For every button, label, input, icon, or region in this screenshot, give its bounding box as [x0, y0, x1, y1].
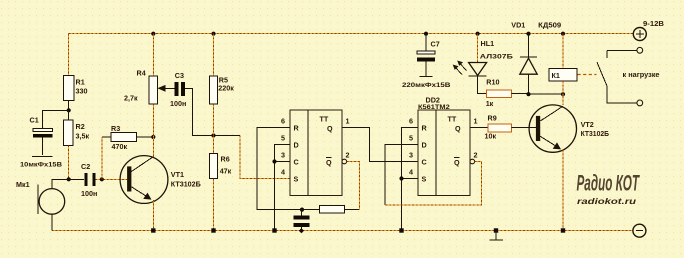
wire pin5 D down — [275, 145, 291, 231]
wire LED cathode to R10 — [478, 76, 487, 94]
svg-text:C2: C2 — [81, 162, 90, 171]
node VT1 emitter / 0V rail — [151, 228, 155, 232]
node top rail / C7 — [424, 32, 428, 36]
node C3/R5 — [211, 133, 215, 137]
resistor R7 (timing) — [302, 209, 320, 211]
svg-text:R: R — [422, 124, 428, 133]
svg-text:10к: 10к — [485, 131, 497, 140]
inversion bubble Q2bar — [470, 159, 475, 164]
svg-text:9-12В: 9-12В — [643, 19, 664, 28]
svg-text:HL1: HL1 — [481, 39, 495, 48]
svg-text:VT1: VT1 — [171, 170, 184, 179]
wire pin6 R to RC node — [257, 128, 302, 210]
wire pin3 C — [275, 161, 291, 163]
transistor VT1 — [120, 156, 168, 204]
node R1/R2/C1 — [67, 108, 71, 112]
capacitor C2 — [84, 173, 87, 186]
svg-text:220мкФх15В: 220мкФх15В — [402, 82, 451, 89]
svg-text:radiokot.ru: radiokot.ru — [577, 196, 637, 206]
svg-text:4: 4 — [409, 168, 413, 177]
svg-text:100н: 100н — [170, 99, 186, 108]
svg-text:S: S — [294, 175, 299, 184]
svg-text:КТ3102Б: КТ3102Б — [581, 129, 609, 138]
svg-text:R1: R1 — [76, 78, 85, 87]
resistor R6 — [213, 136, 215, 154]
node top rail / VD1 — [526, 32, 530, 36]
svg-text:Q: Q — [454, 158, 460, 167]
node D/C tie — [272, 159, 276, 163]
wire mic bottom to 0V rail — [51, 214, 53, 230]
wire top-rail drop to R1 — [68, 34, 70, 76]
LED emission arrows — [460, 63, 467, 71]
node top rail / K1 — [561, 32, 565, 36]
node top rail / HL1 — [476, 32, 480, 36]
svg-text:100н: 100н — [81, 189, 97, 198]
wire VT2 emitter down — [562, 150, 564, 231]
svg-text:1: 1 — [474, 117, 478, 126]
svg-text:C: C — [294, 158, 299, 167]
relay contact K1.1 — [607, 49, 637, 51]
node R6 / 0V rail — [211, 228, 215, 232]
resistor R9 — [488, 124, 512, 132]
capacitor C7 (electrolytic) — [425, 34, 427, 51]
resistor R2 — [64, 120, 74, 145]
svg-text:S: S — [422, 175, 427, 184]
wire VT1 emitter down — [152, 200, 154, 231]
svg-text:КД509: КД509 — [538, 21, 561, 30]
node top rail / R4 — [151, 32, 155, 36]
svg-text:К1: К1 — [552, 71, 560, 80]
node D/C to 0V rail — [272, 228, 276, 232]
svg-text:R2: R2 — [76, 122, 85, 131]
svg-text:АЛ307Б: АЛ307Б — [480, 54, 513, 61]
wire C3 right to trigger node — [185, 88, 240, 135]
svg-text:C: C — [422, 158, 427, 167]
wire Q2 to R9 — [470, 127, 488, 129]
svg-text:1к: 1к — [486, 99, 494, 108]
resistor R3 — [102, 136, 111, 138]
capacitor C3 — [175, 82, 179, 96]
node R3/R4/VT1 collector — [151, 135, 155, 139]
svg-text:Q: Q — [326, 158, 332, 167]
wire Q2bar loop to D — [385, 162, 482, 205]
svg-text:3: 3 — [409, 151, 413, 160]
node C4 / 0V rail — [299, 228, 304, 233]
svg-text:220к: 220к — [218, 84, 234, 93]
wire node to C1 — [42, 110, 68, 128]
relay coil K1 — [562, 34, 564, 69]
node R/S tie — [399, 176, 403, 180]
svg-text:ТТ: ТТ — [320, 114, 329, 123]
svg-text:1: 1 — [346, 117, 350, 126]
resistor R1 — [64, 75, 75, 100]
wire pin6 R down to S — [402, 128, 419, 179]
transistor VT2 — [529, 105, 576, 152]
svg-text:4: 4 — [281, 168, 285, 177]
wire trigger to S input of DD2.1 — [240, 136, 290, 179]
svg-text:Мк1: Мк1 — [16, 180, 30, 189]
wire R10/VD1 to collector node — [512, 93, 529, 95]
flip-flop DD2.1 (left K561TM2 half) — [290, 110, 342, 196]
svg-text:R9: R9 — [488, 114, 497, 123]
svg-text:5: 5 — [281, 134, 285, 143]
svg-text:2,7к: 2,7к — [124, 94, 138, 103]
svg-text:VD1: VD1 — [511, 21, 525, 30]
svg-text:Q: Q — [455, 124, 461, 133]
svg-text:6: 6 — [281, 117, 285, 126]
svg-text:D: D — [422, 141, 427, 150]
wire VT1 collector up — [152, 137, 154, 156]
wire pin4 S — [402, 178, 419, 180]
svg-text:2: 2 — [474, 151, 478, 160]
ground — [494, 228, 498, 232]
wire R1 bottom to node — [68, 101, 70, 111]
node VD1 anode — [526, 92, 530, 96]
wire pin5 D from Qbar loop — [385, 145, 418, 205]
svg-text:D: D — [294, 141, 299, 150]
svg-text:2: 2 — [346, 151, 350, 160]
node relay / VT2 collector — [561, 92, 565, 96]
node RC junction — [300, 208, 304, 212]
resistor R4 (trimmer) — [152, 34, 154, 76]
svg-text:C3: C3 — [175, 71, 184, 80]
terminal minus — [633, 224, 646, 237]
inversion bubble Q1bar — [342, 159, 347, 164]
svg-text:C7: C7 — [431, 40, 440, 49]
wire +V top rail — [69, 33, 634, 35]
LED HL1 — [477, 34, 479, 63]
svg-text:330: 330 — [76, 87, 88, 96]
svg-text:6: 6 — [409, 117, 413, 126]
svg-text:470к: 470к — [112, 142, 128, 151]
node base / R3 — [100, 177, 104, 181]
svg-text:R10: R10 — [486, 78, 499, 87]
capacitor C4 (timing) — [293, 216, 309, 220]
svg-text:3: 3 — [281, 151, 285, 160]
wire C2 to VT1 base — [96, 178, 128, 180]
node R2 / mic / C2 — [67, 177, 71, 181]
svg-text:3,5к: 3,5к — [76, 132, 90, 141]
svg-text:C1: C1 — [30, 116, 39, 125]
wire 0V bottom rail — [52, 230, 633, 232]
svg-text:к нагрузке: к нагрузке — [623, 72, 660, 79]
wiper arrow into R4 — [160, 87, 175, 89]
svg-text:ТТ: ТТ — [448, 114, 457, 123]
node VT2 emitter / 0V rail — [561, 228, 565, 232]
resistor R10 — [486, 90, 511, 98]
svg-text:10мкФх15В: 10мкФх15В — [20, 162, 62, 169]
wire Q1bar to R7 — [347, 162, 360, 210]
wire mic top to C2 line — [52, 179, 84, 188]
wire R2 bottom to input node — [68, 145, 70, 179]
svg-text:47к: 47к — [220, 167, 232, 176]
dashed link K1 to contact — [578, 74, 597, 76]
svg-text:VT2: VT2 — [581, 120, 594, 129]
wire R3 left drop — [101, 137, 103, 179]
svg-text:R: R — [294, 124, 300, 133]
capacitor C1 (electrolytic) — [33, 129, 53, 132]
wire Q1 to C input of DD2.2 — [342, 128, 418, 162]
resistor R5 — [213, 34, 215, 76]
wire R2 top — [68, 110, 70, 120]
svg-text:R4: R4 — [137, 69, 146, 78]
svg-text:R3: R3 — [111, 124, 120, 133]
svg-text:R6: R6 — [221, 155, 230, 164]
svg-text:КТ3102Б: КТ3102Б — [171, 180, 201, 189]
node top rail / R5 — [211, 32, 215, 36]
svg-text:5: 5 — [409, 134, 413, 143]
wire R/S to 0V rail — [401, 179, 403, 231]
svg-text:Q: Q — [327, 124, 333, 133]
svg-text:Радио КОТ: Радио КОТ — [577, 171, 640, 196]
